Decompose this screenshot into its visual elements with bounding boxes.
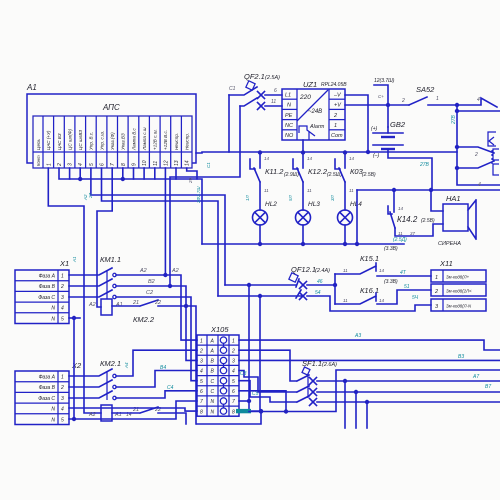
svg-text:К11.2: К11.2 bbox=[265, 167, 284, 176]
svg-text:3: 3 bbox=[200, 359, 203, 365]
svg-text:Х1: Х1 bbox=[59, 259, 69, 268]
svg-text:А: А bbox=[210, 348, 215, 354]
svg-text:С3: С3 bbox=[240, 371, 247, 377]
svg-text:7: 7 bbox=[200, 399, 203, 405]
svg-text:+V: +V bbox=[334, 103, 342, 109]
svg-text:RPL24.05В: RPL24.05В bbox=[321, 82, 347, 88]
svg-text:В4: В4 bbox=[160, 365, 166, 371]
svg-text:4: 4 bbox=[478, 182, 481, 188]
svg-text:7: 7 bbox=[110, 163, 116, 166]
svg-text:1: 1 bbox=[61, 375, 64, 381]
svg-text:С+: С+ bbox=[378, 94, 384, 99]
svg-text:5: 5 bbox=[61, 316, 64, 322]
svg-text:8: 8 bbox=[121, 163, 127, 166]
svg-text:Неиспр.: Неиспр. bbox=[185, 133, 190, 150]
svg-text:Неиспр.: Неиспр. bbox=[174, 133, 179, 150]
svg-text:С: С bbox=[211, 379, 215, 385]
svg-text:14: 14 bbox=[264, 156, 270, 161]
svg-text:Х2: Х2 bbox=[71, 361, 82, 370]
svg-text:2: 2 bbox=[434, 289, 438, 295]
svg-text:4: 4 bbox=[61, 306, 64, 312]
svg-text:НА1: НА1 bbox=[446, 194, 461, 203]
svg-text:В3: В3 bbox=[458, 354, 464, 360]
svg-text:2: 2 bbox=[199, 348, 203, 354]
svg-text:С1: С1 bbox=[206, 162, 211, 168]
svg-text:Конт: Конт bbox=[36, 155, 41, 166]
svg-text:Лампа с.ш: Лампа с.ш bbox=[142, 127, 147, 151]
svg-text:С4: С4 bbox=[167, 385, 174, 391]
svg-text:В: В bbox=[211, 369, 215, 375]
svg-text:6: 6 bbox=[100, 163, 106, 166]
svg-text:С: С bbox=[211, 389, 215, 395]
svg-text:8: 8 bbox=[232, 409, 235, 415]
svg-text:А7: А7 bbox=[472, 374, 479, 380]
svg-text:N: N bbox=[211, 409, 215, 415]
svg-text:А2: А2 bbox=[88, 302, 96, 308]
svg-text:6: 6 bbox=[200, 389, 203, 395]
svg-text:6: 6 bbox=[232, 389, 235, 395]
svg-text:14: 14 bbox=[349, 156, 355, 161]
svg-text:(3.3В): (3.3В) bbox=[384, 279, 398, 285]
svg-text:А1: А1 bbox=[72, 256, 77, 263]
svg-text:(2.5Д): (2.5Д) bbox=[393, 237, 407, 243]
svg-text:27В: 27В bbox=[451, 114, 457, 125]
svg-text:ЦС шлВЗ: ЦС шлВЗ bbox=[78, 130, 83, 150]
svg-text:2: 2 bbox=[401, 98, 405, 104]
svg-text:11: 11 bbox=[349, 188, 354, 193]
svg-text:~24В: ~24В bbox=[308, 109, 322, 115]
svg-text:ЦАС (+У): ЦАС (+У) bbox=[46, 130, 51, 150]
svg-text:1: 1 bbox=[436, 96, 439, 102]
svg-text:SA52: SA52 bbox=[416, 85, 435, 94]
svg-text:4: 4 bbox=[61, 407, 64, 413]
svg-text:7: 7 bbox=[232, 399, 235, 405]
svg-text:1: 1 bbox=[334, 123, 337, 129]
svg-text:А1: А1 bbox=[26, 83, 37, 92]
svg-text:КМ2.1: КМ2.1 bbox=[100, 359, 121, 368]
svg-text:1: 1 bbox=[435, 275, 438, 281]
svg-text:К14.2: К14.2 bbox=[397, 215, 418, 224]
svg-text:4: 4 bbox=[78, 163, 84, 166]
svg-text:3: 3 bbox=[232, 359, 235, 365]
svg-text:11: 11 bbox=[343, 268, 348, 273]
svg-text:2: 2 bbox=[60, 284, 64, 290]
svg-text:14: 14 bbox=[398, 206, 404, 211]
svg-text:L1: L1 bbox=[285, 92, 291, 98]
svg-text:А: А bbox=[210, 338, 215, 344]
svg-text:1: 1 bbox=[46, 163, 52, 166]
svg-text:NC: NC bbox=[285, 123, 293, 129]
svg-text:ЦАС ВЗ: ЦАС ВЗ bbox=[57, 133, 62, 150]
svg-text:2: 2 bbox=[474, 152, 478, 158]
svg-text:11: 11 bbox=[153, 161, 159, 166]
svg-text:3: 3 bbox=[435, 304, 439, 310]
svg-text:А2: А2 bbox=[139, 268, 147, 274]
svg-text:(2.5В): (2.5В) bbox=[362, 172, 376, 178]
svg-text:В: В bbox=[211, 359, 215, 365]
svg-text:14: 14 bbox=[185, 160, 191, 166]
svg-text:КМ1.1: КМ1.1 bbox=[100, 255, 121, 264]
svg-text:UZ1: UZ1 bbox=[303, 80, 317, 89]
svg-text:+12В В.с.: +12В В.с. bbox=[163, 130, 168, 150]
svg-text:Фаза В: Фаза В bbox=[39, 385, 56, 391]
svg-text:6: 6 bbox=[274, 88, 277, 94]
svg-text:Фаза А: Фаза А bbox=[39, 274, 56, 280]
svg-text:N: N bbox=[51, 407, 55, 413]
svg-text:21: 21 bbox=[132, 300, 139, 306]
svg-text:N: N bbox=[51, 306, 55, 312]
svg-text:5Ч: 5Ч bbox=[412, 295, 419, 301]
svg-text:Фаза А: Фаза А bbox=[39, 375, 56, 381]
svg-text:9: 9 bbox=[132, 163, 138, 166]
svg-text:2Ф2.7Ш: 2Ф2.7Ш bbox=[196, 186, 201, 204]
svg-text:–V: –V bbox=[333, 92, 342, 98]
svg-text:4: 4 bbox=[232, 369, 235, 375]
svg-text:Лампа В.с: Лампа В.с bbox=[131, 127, 136, 151]
svg-text:А2: А2 bbox=[171, 268, 179, 274]
svg-text:А2: А2 bbox=[88, 412, 96, 418]
svg-text:Х105: Х105 bbox=[210, 325, 229, 334]
svg-text:14: 14 bbox=[379, 268, 385, 273]
svg-text:(2.5Ш): (2.5Ш) bbox=[327, 172, 342, 178]
svg-text:N: N bbox=[51, 417, 55, 423]
svg-text:4: 4 bbox=[477, 97, 480, 103]
svg-text:5: 5 bbox=[89, 163, 95, 166]
svg-text:22: 22 bbox=[154, 300, 161, 306]
svg-text:14: 14 bbox=[307, 156, 313, 161]
svg-text:GB2: GB2 bbox=[390, 120, 406, 129]
svg-text:Com: Com bbox=[331, 133, 343, 139]
svg-text:PE: PE bbox=[285, 113, 293, 119]
svg-text:4: 4 bbox=[200, 369, 203, 375]
svg-text:11: 11 bbox=[307, 188, 312, 193]
svg-text:В7: В7 bbox=[485, 384, 491, 390]
svg-text:А1: А1 bbox=[115, 302, 123, 308]
svg-text:Фаза С: Фаза С bbox=[38, 295, 55, 301]
svg-text:1: 1 bbox=[61, 274, 64, 280]
svg-text:(2.9Ш): (2.9Ш) bbox=[284, 172, 299, 178]
svg-text:(2.6А): (2.6А) bbox=[322, 362, 337, 368]
svg-text:11: 11 bbox=[271, 99, 276, 105]
svg-text:2: 2 bbox=[231, 348, 235, 354]
svg-text:8: 8 bbox=[200, 409, 203, 415]
svg-text:12: 12 bbox=[163, 160, 169, 166]
svg-text:1: 1 bbox=[200, 338, 203, 344]
svg-text:1: 1 bbox=[232, 338, 235, 344]
svg-text:(2.5А): (2.5А) bbox=[265, 75, 280, 81]
svg-text:Фаза В: Фаза В bbox=[39, 284, 56, 290]
svg-text:В2: В2 bbox=[148, 279, 155, 285]
svg-text:Alarm: Alarm bbox=[309, 124, 325, 130]
svg-text:(3.3В): (3.3В) bbox=[384, 246, 398, 252]
svg-text:ЦС шл(Ф): ЦС шл(Ф) bbox=[67, 128, 72, 150]
svg-text:N: N bbox=[51, 316, 55, 322]
svg-text:QF2.1: QF2.1 bbox=[244, 72, 265, 81]
svg-text:54: 54 bbox=[315, 290, 321, 296]
svg-text:5: 5 bbox=[200, 379, 203, 385]
svg-text:Х11: Х11 bbox=[439, 259, 453, 268]
svg-text:К12.2: К12.2 bbox=[308, 167, 328, 176]
svg-text:27: 27 bbox=[88, 192, 93, 199]
svg-text:Цепь: Цепь bbox=[36, 138, 41, 150]
svg-text:13: 13 bbox=[174, 160, 180, 166]
svg-text:10: 10 bbox=[142, 160, 148, 166]
svg-text:220: 220 bbox=[299, 94, 311, 101]
svg-text:11: 11 bbox=[343, 298, 348, 303]
svg-text:Зм-код8(Л+: Зм-код8(Л+ bbox=[446, 275, 470, 280]
svg-text:12(3.7Ш): 12(3.7Ш) bbox=[374, 78, 395, 84]
svg-text:N: N bbox=[211, 399, 215, 405]
svg-text:27В: 27В bbox=[419, 162, 430, 168]
svg-text:КМ2.2: КМ2.2 bbox=[133, 315, 155, 324]
svg-text:А3: А3 bbox=[354, 333, 361, 339]
svg-text:N: N bbox=[287, 103, 291, 109]
svg-text:2: 2 bbox=[60, 385, 64, 391]
svg-text:5: 5 bbox=[232, 379, 235, 385]
svg-text:2: 2 bbox=[333, 113, 337, 119]
svg-text:К15.1: К15.1 bbox=[360, 254, 379, 263]
svg-text:Упр. В.с.: Упр. В.с. bbox=[89, 132, 94, 150]
svg-text:Фаза С: Фаза С bbox=[38, 396, 55, 402]
svg-text:3: 3 bbox=[61, 396, 64, 402]
svg-text:3: 3 bbox=[61, 295, 64, 301]
svg-text:1Л: 1Л bbox=[245, 194, 250, 201]
svg-text:14: 14 bbox=[379, 298, 385, 303]
svg-text:+12В с.ш.: +12В с.ш. bbox=[153, 129, 158, 150]
svg-text:СИРЕНА: СИРЕНА bbox=[438, 241, 461, 247]
svg-text:3: 3 bbox=[68, 163, 74, 166]
svg-text:Упр. с.ш.: Упр. с.ш. bbox=[99, 131, 104, 150]
svg-text:Зм-код8(Л-N: Зм-код8(Л-N bbox=[446, 304, 472, 309]
svg-text:Указ.ВЗ: Указ.ВЗ bbox=[121, 133, 126, 150]
svg-text:С2: С2 bbox=[146, 290, 153, 296]
svg-text:QF12.1: QF12.1 bbox=[291, 265, 316, 274]
svg-text:Зм-код8(2Л<: Зм-код8(2Л< bbox=[446, 289, 472, 294]
svg-text:51: 51 bbox=[404, 284, 410, 290]
svg-text:(–): (–) bbox=[373, 153, 379, 159]
svg-text:2: 2 bbox=[57, 163, 63, 167]
svg-text:(2.5В): (2.5В) bbox=[421, 218, 435, 224]
svg-text:(+): (+) bbox=[371, 126, 378, 132]
svg-text:HL3: HL3 bbox=[308, 201, 320, 208]
svg-text:5: 5 bbox=[61, 417, 64, 423]
svg-text:11: 11 bbox=[264, 188, 269, 193]
svg-text:А4: А4 bbox=[124, 362, 129, 369]
svg-text:NO: NO bbox=[285, 133, 294, 139]
svg-text:(2.4А): (2.4А) bbox=[315, 268, 330, 274]
svg-text:5Л: 5Л bbox=[288, 194, 293, 201]
svg-text:HL4: HL4 bbox=[350, 201, 362, 208]
svg-text:29: 29 bbox=[188, 177, 193, 184]
svg-text:HL2: HL2 bbox=[265, 201, 277, 208]
svg-text:С5: С5 bbox=[252, 391, 259, 397]
svg-text:АПС: АПС bbox=[102, 103, 120, 112]
svg-text:С1: С1 bbox=[229, 86, 236, 92]
svg-text:Указ.(Ф): Указ.(Ф) bbox=[110, 132, 115, 150]
svg-text:4Т: 4Т bbox=[400, 270, 407, 276]
svg-text:46: 46 bbox=[317, 279, 323, 285]
svg-text:3Л: 3Л bbox=[330, 194, 335, 201]
